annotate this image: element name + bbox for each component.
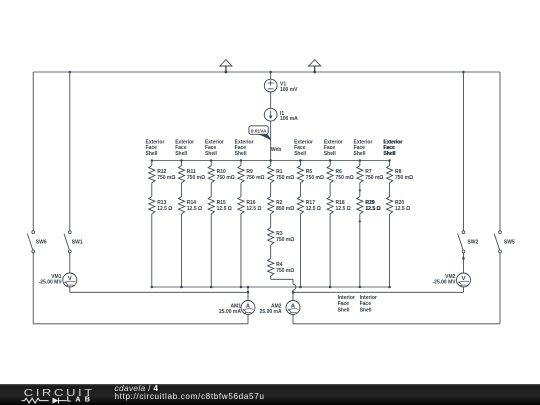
wire AM2 to bottom right rail (292, 315, 294, 324)
svg-text:Shell: Shell (235, 151, 248, 157)
ammeter AM1 (241, 301, 255, 315)
resistor R5 (297, 166, 303, 183)
node label Exterior Face Shell (column 3) (205, 139, 224, 156)
junction top bus column 2 (180, 159, 183, 162)
svg-text:Shell: Shell (294, 151, 307, 157)
wire R17 to bottom bus (299, 214, 301, 287)
wire R7 to R19 (359, 183, 361, 197)
resistor R17 (297, 197, 303, 214)
junction bottom bus column 4 (240, 286, 243, 289)
svg-text:Shell: Shell (146, 151, 159, 157)
antenna net flag 2 (308, 60, 321, 74)
wire bus to R9 (240, 161, 242, 166)
svg-text:Interior: Interior (360, 295, 377, 301)
junction SW1 top (69, 71, 72, 74)
wire R3 to R4 (270, 245, 272, 259)
wire R16 to bottom bus (240, 214, 242, 287)
junction top bus column 1 (151, 159, 154, 162)
voltage source V1 (264, 79, 277, 92)
wire R18 to bottom bus (329, 214, 331, 287)
svg-text:750 mΩ: 750 mΩ (336, 175, 354, 181)
svg-text:750 mΩ: 750 mΩ (187, 175, 205, 181)
svg-text:Shell: Shell (175, 151, 188, 157)
node label Exterior Face Shell (column 6) (294, 139, 313, 156)
svg-text:Face: Face (360, 301, 372, 307)
resistor R13 (149, 197, 155, 214)
wire R2 to R3 (270, 214, 272, 228)
svg-text:25.00 mA: 25.00 mA (260, 309, 282, 315)
junction bottom bus column 3 (210, 286, 213, 289)
junction dot above R19 (359, 189, 361, 191)
wire R12 to R13 (151, 183, 153, 197)
svg-text:Shell: Shell (205, 151, 218, 157)
svg-text:SW2: SW2 (467, 240, 478, 246)
svg-text:Shell: Shell (338, 307, 351, 313)
junction dot below R19 (359, 220, 361, 222)
svg-text:0.01VA: 0.01VA (251, 128, 267, 134)
wire top resistor bus (152, 160, 390, 162)
wire R1 to R2 (270, 183, 272, 197)
wire bus to R5 (299, 161, 301, 166)
junction top bus column 5 (269, 159, 272, 162)
wire top bus to V1 (270, 72, 272, 79)
wire bus to R11 (181, 161, 183, 166)
resistor R11 (178, 166, 184, 183)
wire R8 to R20 (389, 183, 391, 197)
svg-text:750 mΩ: 750 mΩ (306, 175, 324, 181)
svg-text:750 mΩ: 750 mΩ (365, 175, 383, 181)
resistor R8 (386, 166, 392, 183)
resistor R1 (268, 166, 274, 183)
resistor R19 (357, 197, 363, 214)
svg-text:850 mΩ: 850 mΩ (276, 206, 294, 212)
switch SW5 (494, 231, 501, 253)
wire top bus (node between antennas, V1 and switches) (33, 71, 500, 73)
junction bottom bus column 8 (359, 286, 362, 289)
junction bottom bus column 7 (329, 286, 332, 289)
svg-text:Shell: Shell (324, 151, 337, 157)
junction top bus column 4 (240, 159, 243, 162)
wire R14 to bottom bus (181, 214, 183, 287)
voltmeter VM1 (63, 273, 77, 287)
wire I1 to top resistor bus (node Web) (270, 121, 272, 160)
wire R10 to R15 (210, 183, 212, 197)
junction bottom bus column 6 (299, 286, 302, 289)
svg-text:750 mΩ: 750 mΩ (157, 175, 175, 181)
wire bus to R6 (329, 161, 331, 166)
svg-text:750 mΩ: 750 mΩ (246, 175, 264, 181)
junction bottom bus column 1 (151, 286, 154, 289)
junction VM1 wire at AM1 (247, 291, 250, 294)
svg-text:SW1: SW1 (72, 240, 83, 246)
antenna net flag 1 (219, 60, 232, 74)
footer bar (0, 384, 540, 405)
switch SW1 (64, 231, 71, 253)
svg-text:-25.00 MV: -25.00 MV (39, 279, 63, 285)
svg-text:12.5 Ω: 12.5 Ω (395, 206, 410, 212)
wire bus to R12 (151, 161, 153, 166)
svg-text:25.00 mA: 25.00 mA (219, 309, 241, 315)
footer url (115, 392, 265, 401)
svg-text:LAB: LAB (67, 395, 94, 404)
svg-text:100 mA: 100 mA (280, 116, 298, 122)
junction bottom bus column 9 (388, 286, 391, 289)
wire VM2 to AM2 node (293, 287, 464, 292)
current source I1 (264, 108, 277, 121)
node label Exterior Face Shell (column 9) (383, 139, 402, 156)
node label Interior Face Shell 2 (360, 295, 377, 313)
node label Exterior Face Shell (column 2) (175, 139, 194, 156)
wire SW6 to bottom left rail (33, 253, 248, 324)
wire bottom bus to AM1 (247, 287, 249, 301)
R19 name label (doubled) (365, 200, 375, 206)
wire VM1 to AM1 node (70, 287, 248, 292)
svg-text:Face: Face (338, 301, 350, 307)
wire bus to R7 (359, 161, 361, 166)
wire R20 to bottom bus (389, 214, 391, 287)
resistor R10 (208, 166, 214, 183)
junction top bus column 3 (210, 159, 213, 162)
svg-text:SW6: SW6 (36, 240, 47, 246)
junction top bus column 8 (359, 159, 362, 162)
svg-text:750 mΩ: 750 mΩ (276, 175, 294, 181)
wire SW5 to bottom right rail (293, 253, 500, 324)
wire bus to R1 (270, 161, 272, 166)
node label Exterior Face Shell (column 1) (146, 139, 165, 156)
footer author text cdavela / 4 (115, 381, 159, 393)
wire bus to R8 (389, 161, 391, 166)
svg-text:-25.00 MV: -25.00 MV (433, 279, 457, 285)
wire bottom resistor bus (152, 286, 390, 288)
resistor R16 (238, 197, 244, 214)
switch SW2 (458, 231, 465, 253)
junction bottom bus column 2 (180, 286, 183, 289)
node label Exterior Face Shell (column 4) (235, 139, 254, 156)
resistor R3 (268, 228, 274, 245)
junction SW2 top (462, 71, 465, 74)
junction VM2 wire at AM2 (292, 291, 295, 294)
wire SW2 column top (463, 72, 465, 231)
svg-text:Interior: Interior (338, 295, 355, 301)
svg-text:12.5 Ω: 12.5 Ω (157, 206, 172, 212)
resistor R20 (386, 197, 392, 214)
resistor R12 (149, 166, 155, 183)
svg-text:Shell: Shell (384, 151, 397, 157)
svg-text:750 mΩ: 750 mΩ (217, 175, 235, 181)
voltmeter VM2 (457, 273, 471, 287)
junction bottom bus at AM1 (247, 286, 250, 289)
wire left outer rail top (to SW6) (32, 72, 34, 231)
resistor R18 (327, 197, 333, 214)
junction V1 top (269, 71, 272, 74)
wire R6 to R18 (329, 183, 331, 197)
svg-text:12.5 Ω: 12.5 Ω (246, 206, 261, 212)
resistor R15 (208, 197, 214, 214)
svg-text:750 mΩ: 750 mΩ (276, 237, 294, 243)
wire V1 to I1 (270, 92, 272, 108)
resistor R9 (238, 166, 244, 183)
resistor R6 (327, 166, 333, 183)
wire SW1 column top (69, 72, 71, 231)
svg-text:12.5 Ω: 12.5 Ω (217, 206, 232, 212)
svg-text:12.5 Ω: 12.5 Ω (336, 206, 351, 212)
svg-text:Web: Web (271, 147, 281, 153)
svg-text:Shell: Shell (360, 307, 373, 313)
node label Interior Face Shell 1 (338, 295, 355, 313)
wire R11 to R14 (181, 183, 183, 197)
junction top bus column 6 (299, 159, 302, 162)
wire SW1 to VM1 (69, 253, 71, 273)
junction top bus column 7 (329, 159, 332, 162)
svg-text:100 mV: 100 mV (280, 87, 298, 93)
wire right outer rail top (to SW5) (499, 72, 501, 231)
resistor R2 (268, 197, 274, 214)
wire R4 jog to AM2 with hop over bus (271, 276, 296, 301)
resistor R4 (268, 259, 274, 276)
junction top bus column 9 (388, 159, 391, 162)
svg-text:750 mΩ: 750 mΩ (395, 175, 413, 181)
node label Exterior Face Shell (column 8) (354, 139, 373, 156)
resistor R14 (178, 197, 184, 214)
CircuitLab logo (0, 384, 110, 405)
ammeter AM2 (286, 301, 300, 315)
svg-text:12.5 Ω: 12.5 Ω (187, 206, 202, 212)
svg-text:12.5 Ω: 12.5 Ω (366, 206, 381, 212)
switch SW6 (27, 231, 34, 253)
wire SW2 to VM2 with current arrow (462, 253, 465, 273)
resistor R7 (357, 166, 363, 183)
wire R15 to bottom bus (210, 214, 212, 287)
svg-text:Shell: Shell (354, 151, 367, 157)
wire R9 to R16 (240, 183, 242, 197)
wire bus to R10 (210, 161, 212, 166)
wire R13 to bottom bus (151, 214, 153, 287)
R19 value 12.5 Ohm (doubled) (365, 206, 381, 212)
svg-text:12.5 Ω: 12.5 Ω (306, 206, 321, 212)
wire R5 to R17 (299, 183, 301, 197)
power annotation 0.01VA (249, 126, 271, 140)
node label Exterior Face Shell (column 7) (324, 139, 343, 156)
svg-text:SW5: SW5 (504, 240, 515, 246)
svg-text:750 mΩ: 750 mΩ (276, 268, 294, 274)
wire AM1 to bottom left rail (247, 315, 249, 324)
wire R19 to bottom bus (359, 214, 361, 287)
